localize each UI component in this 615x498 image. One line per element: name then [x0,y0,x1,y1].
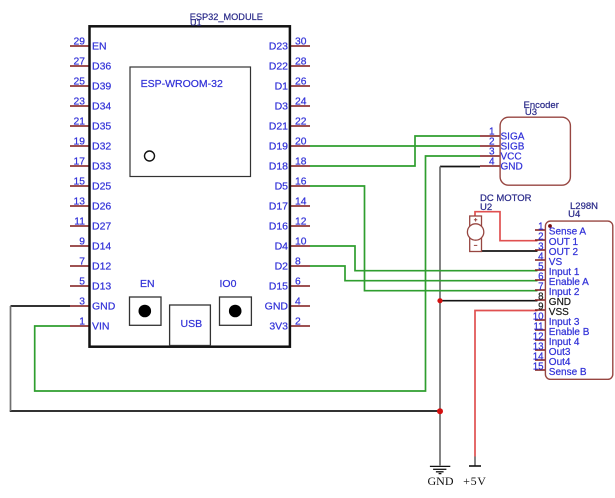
svg-text:11: 11 [74,217,85,228]
svg-text:29: 29 [74,37,86,48]
svg-text:4: 4 [489,156,495,167]
svg-text:D17: D17 [269,201,288,213]
svg-text:3: 3 [79,297,85,308]
svg-text:10: 10 [295,237,307,248]
svg-text:D33: D33 [92,161,111,173]
svg-text:20: 20 [295,137,307,148]
svg-text:22: 22 [295,117,307,128]
svg-text:D23: D23 [269,41,288,53]
svg-text:D14: D14 [92,241,111,253]
svg-text:IO0: IO0 [220,278,237,290]
svg-text:21: 21 [74,117,86,128]
svg-text:7: 7 [79,257,85,268]
svg-text:D12: D12 [92,261,111,273]
svg-text:15: 15 [533,361,544,372]
svg-text:USB: USB [181,318,203,330]
svg-text:28: 28 [295,57,307,68]
svg-text:U3: U3 [525,107,537,118]
svg-text:D25: D25 [92,181,111,193]
svg-text:D13: D13 [92,281,111,293]
svg-text:D5: D5 [275,181,289,193]
svg-text:6: 6 [295,277,301,288]
svg-text:18: 18 [295,157,307,168]
svg-text:VIN: VIN [92,321,110,333]
svg-text:30: 30 [295,37,307,48]
svg-text:D1: D1 [275,81,289,93]
svg-text:D35: D35 [92,121,111,133]
svg-text:3V3: 3V3 [269,321,288,333]
svg-text:19: 19 [74,137,86,148]
svg-text:8: 8 [295,257,301,268]
svg-text:D32: D32 [92,141,111,153]
svg-text:27: 27 [74,57,86,68]
svg-text:D19: D19 [269,141,288,153]
svg-text:16: 16 [295,177,307,188]
svg-text:4: 4 [295,297,301,308]
svg-text:1: 1 [79,317,85,328]
svg-text:26: 26 [295,77,307,88]
svg-text:ESP-WROOM-32: ESP-WROOM-32 [141,78,223,90]
svg-text:D15: D15 [269,281,288,293]
svg-text:15: 15 [74,177,86,188]
svg-text:GND: GND [92,301,116,313]
svg-text:24: 24 [295,97,307,108]
svg-text:12: 12 [295,217,307,228]
svg-text:D4: D4 [275,241,289,253]
svg-text:23: 23 [74,97,86,108]
svg-text:D26: D26 [92,201,111,213]
svg-text:GND: GND [428,474,454,488]
svg-text:GND: GND [265,301,289,313]
svg-text:D27: D27 [92,221,111,233]
svg-text:D21: D21 [269,121,288,133]
svg-text:D3: D3 [275,101,289,113]
svg-text:D16: D16 [269,221,288,233]
svg-text:25: 25 [74,77,86,88]
svg-text:D18: D18 [269,161,288,173]
svg-text:9: 9 [79,237,85,248]
svg-text:17: 17 [74,157,86,168]
svg-text:13: 13 [74,197,86,208]
svg-text:Sense B: Sense B [549,367,587,378]
svg-text:14: 14 [295,197,307,208]
svg-text:U2: U2 [480,202,492,213]
svg-text:D34: D34 [92,101,111,113]
svg-text:5: 5 [79,277,85,288]
svg-text:D39: D39 [92,81,111,93]
svg-text:U1: U1 [190,17,202,27]
svg-text:D36: D36 [92,61,111,73]
svg-text:2: 2 [295,317,301,328]
svg-text:+5V: +5V [463,474,487,488]
svg-text:U4: U4 [568,209,580,220]
svg-text:D2: D2 [275,261,289,273]
svg-text:D22: D22 [269,61,288,73]
svg-text:GND: GND [501,161,523,172]
svg-text:Sense A: Sense A [549,226,587,237]
svg-text:EN: EN [92,41,107,53]
svg-text:EN: EN [140,278,155,290]
